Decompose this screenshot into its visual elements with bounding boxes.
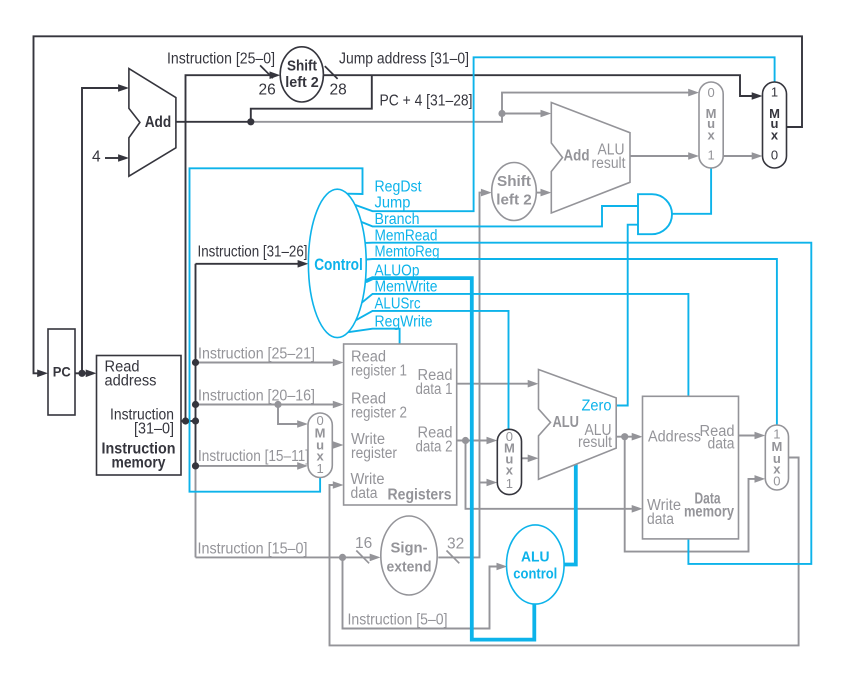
node: Read data 2 junction: [462, 437, 469, 444]
wire: Data memory Read data to MemtoReg mux input 1: [739, 432, 766, 440]
label MemtoReg signal: [375, 244, 440, 261]
svg-text:memory: memory: [684, 504, 734, 521]
svg-text:Instruction [20–16]: Instruction [20–16]: [198, 388, 315, 405]
node: Instruction [20-16] junction: [192, 401, 199, 408]
label MemWrite signal: [375, 279, 438, 296]
svg-text:register: register: [351, 445, 397, 462]
wire: Instruction [25-21] to Read register 1: [196, 359, 344, 367]
wire: PC+4 from Add output to split point: [251, 114, 502, 122]
svg-text:Instruction [5–0]: Instruction [5–0]: [348, 612, 448, 629]
svg-text:28: 28: [330, 82, 347, 99]
node: instruction bus junction B: [192, 417, 199, 424]
wire: Read data 2 to ALUSrc mux input 0: [457, 437, 498, 445]
svg-text:Address: Address: [648, 429, 701, 446]
node: Instruction [15-11] junction: [192, 462, 199, 469]
oval Sign-extend: [381, 516, 437, 595]
label ALUOp signal: [375, 263, 420, 280]
svg-text:0: 0: [707, 85, 714, 100]
label Zero (ALU zero flag): [582, 398, 612, 415]
wire: ALUSrc mux output to ALU input 2: [522, 455, 539, 463]
register file Registers: [344, 344, 457, 505]
wire: Instruction [20-16] to Read register 2: [196, 401, 344, 409]
wire: instruction bus vertical (black): [195, 264, 197, 466]
svg-text:Jump address [31–0]: Jump address [31–0]: [339, 51, 469, 68]
wire: PC+4 into branch Add top input: [502, 110, 551, 118]
memory Instruction memory: [97, 356, 182, 476]
svg-text:PC + 4 [31–28]: PC + 4 [31–28]: [380, 93, 473, 110]
svg-text:Instruction [25–21]: Instruction [25–21]: [198, 346, 315, 363]
svg-text:32: 32: [447, 536, 464, 553]
label 16 (bus width): [355, 535, 372, 552]
svg-text:ALUSrc: ALUSrc: [375, 296, 421, 313]
wire: ALUOp control bus (thick) to ALU control: [366, 278, 535, 639]
svg-text:Sign-: Sign-: [391, 540, 428, 557]
mux branch (PC source): [699, 82, 723, 168]
svg-text:Zero: Zero: [582, 398, 612, 415]
wire: MemRead control signal to Data memory read port: [365, 243, 811, 564]
svg-text:data 1: data 1: [416, 381, 453, 398]
svg-text:data 2: data 2: [416, 439, 453, 456]
mux RegDst (write register select): [308, 413, 332, 478]
svg-text:MemtoReg: MemtoReg: [375, 244, 440, 261]
label Branch signal: [375, 211, 420, 228]
label Instruction [20-16]: [198, 388, 315, 405]
label Instruction [25-21]: [198, 346, 315, 363]
wire: ALU result to Data memory Address: [616, 433, 642, 441]
wire: Instruction memory output stub: [181, 420, 196, 422]
label ALUSrc signal: [375, 296, 421, 313]
wire: RegWrite control signal to Registers write port: [348, 329, 400, 344]
svg-text:register 2: register 2: [351, 405, 407, 422]
svg-text:memory: memory: [112, 455, 166, 472]
svg-text:data: data: [351, 485, 378, 502]
svg-text:4: 4: [92, 149, 101, 166]
memory Data memory: [643, 396, 739, 539]
svg-text:ALU: ALU: [553, 414, 580, 431]
label Instruction [25-0]: [167, 51, 275, 68]
wire: MemtoReg mux output back to Registers Write data: [330, 458, 799, 646]
control unit ALU control: [507, 525, 565, 604]
bus tick: 16-bit before Sign-extend: [356, 551, 369, 564]
label Instruction [31-26]: [198, 244, 308, 261]
bus tick: 32-bit after Sign-extend: [447, 551, 460, 564]
svg-text:address: address: [105, 373, 157, 390]
wire: sign-extend branch into ALUSrc mux input 1: [480, 479, 498, 487]
wire: Instruction [20-16] branch to RegDst mux input 0: [278, 405, 308, 428]
label RegDst signal: [375, 179, 423, 196]
node: Instruction [25-21] junction: [192, 359, 199, 366]
wire: AND gate output to branch Mux select: [672, 168, 711, 214]
label Jump address [31-0]: [339, 51, 469, 68]
svg-text:data: data: [708, 436, 735, 453]
wire: jump Mux output feedback to PC: [34, 36, 803, 377]
wire: Sign-extend output up to Shift left 2 and ALUSrc mux input 1: [438, 189, 491, 558]
label 28 (bus width): [330, 82, 347, 99]
wire: Read data 2 down to Data memory Write data: [466, 441, 643, 513]
svg-text:RegDst: RegDst: [375, 179, 423, 196]
svg-text:ALU: ALU: [521, 549, 550, 566]
svg-text:Branch: Branch: [375, 211, 420, 228]
wire: Instruction [15-0] to Sign-extend: [196, 554, 381, 562]
oval Shift left 2 (branch): [492, 163, 537, 221]
mux MemtoReg: [765, 425, 788, 490]
svg-text:MemRead: MemRead: [375, 228, 438, 245]
svg-text:0: 0: [773, 474, 780, 489]
wire: Instruction [25-0] up to Shift left 2: [186, 71, 281, 421]
mux jump (final PC select): [763, 82, 787, 168]
wire: RegDst mux output to Write register: [332, 441, 343, 449]
oval Shift left 2 (jump): [280, 47, 323, 102]
svg-text:result: result: [578, 434, 613, 451]
svg-text:Shift: Shift: [287, 57, 317, 74]
node: instruction bus junction A (to shift left 2): [182, 417, 189, 424]
svg-text:register 1: register 1: [351, 363, 407, 380]
svg-text:Instruction [15–11]: Instruction [15–11]: [198, 448, 309, 465]
wire: Jump control signal to jump Mux select: [355, 57, 774, 211]
svg-text:ALUOp: ALUOp: [375, 263, 420, 280]
wire: instruction bus vertical lower segment (gray): [195, 466, 197, 558]
node: Instruction [20-16] to RegDst mux junction: [274, 401, 281, 408]
node: PC output junction: [78, 370, 85, 377]
svg-text:RegWrite: RegWrite: [375, 314, 433, 331]
svg-text:control: control: [513, 566, 557, 583]
svg-text:result: result: [592, 155, 627, 172]
node: Instruction [15-0] junction: [339, 554, 346, 561]
label MemRead signal: [375, 228, 438, 245]
label Instruction [5-0]: [348, 612, 448, 629]
svg-text:[31–0]: [31–0]: [134, 421, 174, 438]
label Jump signal: [375, 195, 411, 212]
svg-text:Control: Control: [314, 255, 363, 274]
control unit Control: [308, 189, 366, 337]
svg-text:MemWrite: MemWrite: [375, 279, 438, 296]
svg-text:Registers: Registers: [388, 487, 452, 504]
svg-text:16: 16: [355, 535, 372, 552]
label 32 (bus width): [447, 536, 464, 553]
wire: MemWrite control signal to Data memory write port: [362, 294, 689, 396]
svg-text:Instruction [31–26]: Instruction [31–26]: [198, 244, 308, 261]
node: PC+4 junction after Add: [247, 118, 254, 125]
svg-text:extend: extend: [387, 559, 432, 576]
bus tick: 26-bit before Shift left 2: [260, 65, 273, 78]
wire: Add output (PC+4): [176, 121, 251, 123]
alu ALU (main): [539, 370, 617, 480]
svg-text:Instruction [15–0]: Instruction [15–0]: [198, 541, 308, 558]
wire: branch Add ALU result to branch Mux input 1: [630, 152, 699, 160]
svg-text:1: 1: [316, 461, 323, 476]
wire: Read data 1 to ALU input 1: [457, 380, 539, 388]
svg-text:1: 1: [771, 85, 778, 100]
svg-text:Add: Add: [564, 148, 590, 165]
svg-text:left 2: left 2: [285, 74, 319, 91]
wire: branch Mux output to jump Mux input 0: [723, 152, 762, 160]
wire: PC+4 up to branch Mux input 0: [502, 89, 699, 114]
svg-text:1: 1: [506, 476, 513, 491]
svg-text:x: x: [771, 128, 779, 143]
register PC: [48, 329, 75, 415]
wire: Instruction [31-26] into Control: [196, 260, 309, 268]
node: PC+4 to branch adder junction: [498, 110, 505, 117]
wire: Instruction [5-0] to ALU control: [343, 557, 508, 628]
wire: MemtoReg control signal to MemtoReg mux select: [366, 259, 777, 425]
svg-text:x: x: [707, 128, 715, 143]
wire: Zero flag from ALU to AND gate input 2: [616, 225, 638, 406]
label 26 (bus width): [259, 82, 276, 99]
svg-text:left 2: left 2: [496, 192, 532, 209]
wire: Jump address [31-0] to jump Mux input 1: [323, 75, 762, 100]
label 4 (constant): [92, 149, 101, 166]
svg-text:Shift: Shift: [497, 173, 531, 190]
node: ALU result junction: [621, 433, 628, 440]
wire: PC output up to Add input: [82, 84, 129, 373]
svg-text:Jump: Jump: [375, 195, 411, 212]
svg-text:PC: PC: [53, 365, 71, 380]
label PC + 4 [31-28]: [380, 93, 473, 110]
svg-text:1: 1: [707, 147, 714, 162]
adder Add (branch target): [551, 103, 630, 214]
wire: Instruction [15-11] to RegDst mux input 1: [196, 462, 309, 470]
wire: PC output to Instruction memory Read address: [75, 370, 97, 378]
label Instruction [15-11]: [198, 448, 309, 465]
bus tick: 28-bit after Shift left 2: [325, 66, 338, 79]
wire: Shift left 2 output to branch Add lower input: [536, 189, 551, 197]
mux ALUSrc: [497, 429, 521, 495]
svg-text:data: data: [647, 511, 674, 528]
wire: ALU result bypass down to MemtoReg mux input 0: [625, 437, 766, 552]
wire: ALUSrc control signal to ALUSrc mux select: [356, 311, 509, 429]
wire: RegDst control signal to RegDst mux select: [190, 168, 363, 491]
label RegWrite signal: [375, 314, 433, 331]
gate AND (branch taken): [638, 194, 672, 234]
adder Add (PC increment): [129, 69, 176, 177]
wire: Branch control signal to AND gate input 1: [361, 206, 638, 226]
wire: ALU control output (thick) to ALU: [563, 464, 576, 565]
wire: constant 4 into Add: [105, 154, 129, 162]
svg-text:Instruction [25–0]: Instruction [25–0]: [167, 51, 275, 68]
svg-text:26: 26: [259, 82, 276, 99]
wire: PC+4 [31-28] step up to jump address: [251, 75, 372, 122]
svg-text:0: 0: [771, 147, 778, 162]
label Instruction [15-0]: [198, 541, 308, 558]
svg-text:Add: Add: [145, 114, 172, 131]
